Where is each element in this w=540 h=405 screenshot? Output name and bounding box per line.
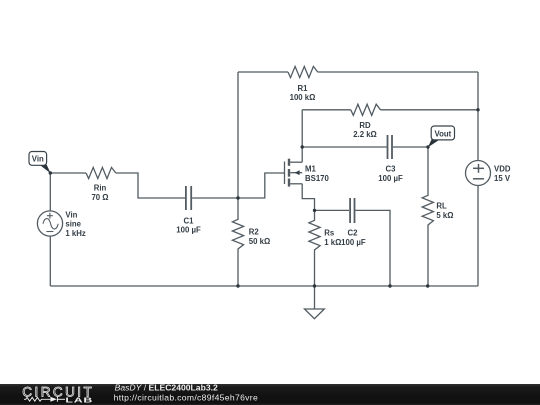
svg-text:LAB: LAB [65,397,93,405]
svg-text:70 Ω: 70 Ω [91,193,108,202]
junction C2 branch bottom [388,284,391,287]
wire right rail top [477,72,479,161]
junction RD right rail [476,108,479,111]
label C2 value [341,229,366,247]
svg-text:100 µF: 100 µF [341,238,366,247]
wire Rin to C1 [116,173,185,198]
svg-text:100 µF: 100 µF [176,226,201,235]
svg-text:R2: R2 [249,228,260,237]
svg-text:Rs: Rs [324,229,335,238]
wire R1 to right rail [318,71,478,73]
junction node A (Vin) [49,171,52,174]
label Rs value [324,229,341,247]
footer title text [114,383,258,403]
svg-text:R1: R1 [298,84,309,93]
svg-text:15 V: 15 V [494,174,511,183]
capacitor C2 [350,198,354,223]
svg-text:Vin: Vin [32,155,44,164]
wire C3 to Vout node [393,146,428,148]
resistor RL [422,147,433,286]
ground [305,286,325,319]
wire Rs node to C2 [315,209,350,211]
svg-text:RD: RD [359,121,371,130]
wire Vin source bottom [49,236,51,286]
resistor R2 [232,198,243,286]
svg-text:Vin: Vin [65,210,77,219]
CircuitLab logo [22,385,94,405]
wire top left to R1 [238,71,288,73]
junction R2 bottom [236,284,239,287]
wire Vin node to Rin [50,172,86,174]
footer bar [0,384,540,405]
wire C1 to node B [192,197,238,199]
wire RD left vertical [301,110,303,147]
svg-text:1 kHz: 1 kHz [65,229,85,238]
svg-text:Rin: Rin [94,183,107,192]
junction node D (source/Rs/C2) [313,209,316,212]
label Vin source value [65,210,85,238]
label VDD value [494,165,511,184]
wire left vertical node B to top [237,72,239,198]
resistor R1 [288,66,318,77]
label M1 value [305,165,330,184]
transistor M1 BS170 [285,159,303,187]
junction node C (drain/C3) [301,145,304,148]
resistor RD [351,104,381,115]
svg-text:C3: C3 [386,165,397,174]
label RD value [353,121,377,139]
junction node B (C1/R2/gate) [236,196,239,199]
capacitor C3 [388,135,393,159]
svg-text:http://circuitlab.com/c89f45eh: http://circuitlab.com/c89f45eh76vre [114,393,258,403]
junction Rs bottom [313,284,316,287]
svg-text:Vout: Vout [435,129,452,138]
node Vout flag [428,126,455,147]
junction Vout node [426,145,429,148]
label C1 value [176,216,201,234]
svg-text:M1: M1 [305,165,316,174]
svg-text:2.2 kΩ: 2.2 kΩ [353,130,377,139]
label R1 value [290,84,316,102]
wire right rail bottom [477,186,479,287]
label Rin value [91,183,108,201]
wire node B to M1 gate [238,173,285,198]
svg-text:100 µF: 100 µF [378,174,403,183]
resistor Rin [86,167,116,178]
svg-text:100 kΩ: 100 kΩ [290,93,316,102]
svg-text:BS170: BS170 [305,174,330,183]
wire node C to C3 [302,146,386,148]
svg-text:5 kΩ: 5 kΩ [436,211,453,220]
voltage source VDD [466,161,491,186]
junction RL bottom [426,284,429,287]
wire M1 source step to Rs [302,184,314,211]
capacitor C1 [186,186,191,210]
svg-text:C2: C2 [348,229,359,238]
voltage source Vin sine [37,211,62,236]
wire to RD [302,109,351,111]
svg-text:C1: C1 [184,216,195,225]
wire Vin source top [49,173,51,211]
resistor Rs [309,210,320,286]
label RL value [436,202,453,220]
wire bottom rail [50,285,478,287]
svg-text:VDD: VDD [494,165,511,174]
svg-text:1 kΩ: 1 kΩ [324,238,341,247]
svg-text:50 kΩ: 50 kΩ [249,237,270,246]
wire C2 right branch down [355,210,390,286]
label C3 value [378,165,403,184]
svg-text:sine: sine [65,220,81,229]
svg-text:BasDY / ELEC2400Lab3.2: BasDY / ELEC2400Lab3.2 [115,383,218,393]
node Vin flag [29,152,51,174]
svg-text:RL: RL [436,202,447,211]
wire M1 drain vertical [301,147,303,162]
label R2 value [249,228,270,246]
wire RD to right rail [381,109,479,111]
